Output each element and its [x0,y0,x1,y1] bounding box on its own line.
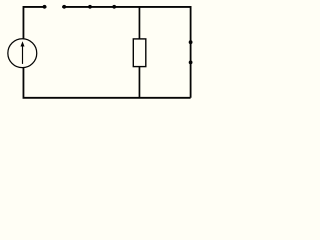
wire: left branch top (source top to top-left corner, then right to open terminal) [23,7,46,39]
node: junction dot on top wire right [112,5,116,9]
wire: bottom rail [23,68,190,98]
node: open terminal dot B [62,5,66,9]
node: junction dot on top wire [88,5,92,9]
wire: resistor branch top lead [138,7,140,39]
node: junction dot on right branch upper [189,40,193,44]
resistor R1 (IEC box symbol) [133,39,146,67]
current source I1 (circle) [8,39,37,68]
wire: top segment from terminal B to top-right corner, down right side to bottom-right corner [62,7,190,98]
wire: resistor branch bottom lead [138,67,140,98]
node: junction dot on right branch lower [189,61,193,65]
node: open terminal dot A [43,5,47,9]
current source I1 arrow head [21,41,25,46]
current source I1 arrow shaft [22,45,24,64]
